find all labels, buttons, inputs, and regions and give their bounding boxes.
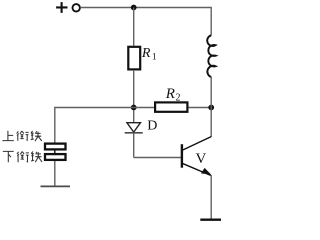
resistor R2 [155, 102, 187, 111]
resistor R1 [128, 47, 140, 70]
wire diode to base [134, 157, 181, 159]
emitter [182, 163, 211, 175]
下 [3, 151, 14, 162]
wire from node B to R2 [134, 107, 154, 109]
wire from R2 to node C [189, 107, 212, 109]
svg-text:V: V [196, 151, 207, 167]
wire right rail top (from top corner to coil) [210, 7, 212, 36]
collector [182, 137, 211, 151]
wire emitter down to bottom bar [210, 175, 212, 219]
transistor V [182, 137, 211, 176]
svg-text:D: D [147, 119, 157, 134]
base bar [181, 144, 183, 168]
svg-text:1: 1 [152, 53, 157, 63]
terminal bar bottom right [200, 218, 221, 220]
node A (top junction dot) [131, 5, 137, 11]
wire right rail below coil through node C to collector corner [210, 77, 212, 137]
铁 [31, 152, 42, 163]
plus sign (+) supply polarity [56, 2, 67, 13]
wire from R1 down to node B [133, 70, 135, 108]
lower armature contact [45, 154, 66, 160]
衔 [17, 131, 29, 141]
inductor L (relay coil) [207, 35, 215, 77]
svg-text:R: R [141, 46, 151, 61]
铁 [31, 131, 42, 141]
upper armature contact [45, 144, 66, 150]
wire from node A down to R1 [133, 8, 135, 46]
上 [2, 131, 13, 141]
emitter arrowhead [201, 168, 211, 175]
wire stub between contacts [54, 150, 56, 154]
wire left branch from node B to armature column [55, 108, 134, 143]
label 下衔铁 (hand-drawn glyphs) [3, 151, 42, 162]
diode D [125, 110, 143, 158]
衔 [17, 152, 29, 163]
svg-text:2: 2 [176, 93, 181, 104]
node C (junction dot right of R2) [208, 105, 214, 111]
wire armature column through to bottom bar [54, 142, 56, 186]
terminal bar below armature [41, 185, 71, 187]
terminal circle [73, 4, 80, 11]
svg-text:R: R [165, 86, 175, 102]
wire top rail [80, 7, 211, 9]
node B (junction dot left of R2) [131, 105, 137, 111]
label 上衔铁 (hand-drawn glyphs) [2, 131, 41, 141]
